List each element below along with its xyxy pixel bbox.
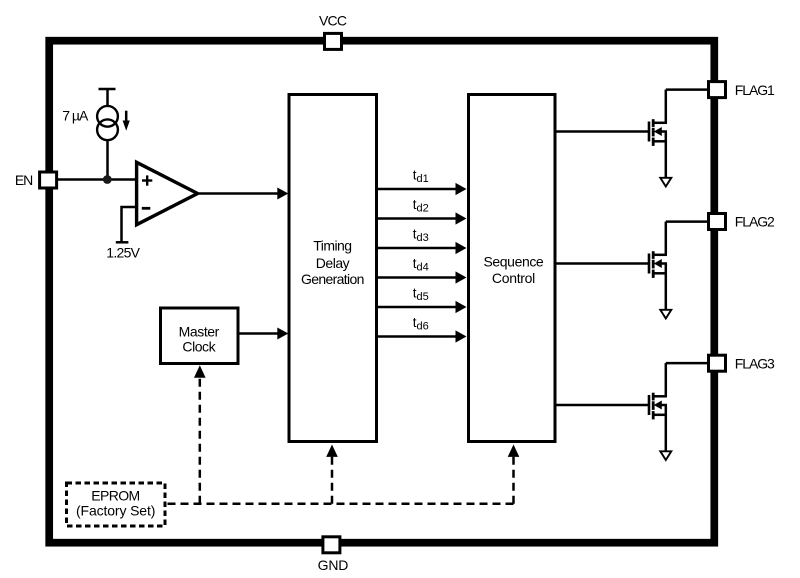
block: Sequence Control <box>469 95 556 442</box>
ground (Q3 source) <box>660 451 671 460</box>
svg-text:Generation: Generation <box>301 271 365 287</box>
wire EN pin to comparator + input <box>57 178 137 181</box>
wire comparator output to Timing Delay Generation <box>199 192 278 195</box>
comparator U1 <box>137 162 198 224</box>
EPROM (Factory Set) block <box>67 483 166 526</box>
dashed wire EPROM to Master Clock <box>199 376 202 504</box>
wire Sequence Control to Q1 gate <box>556 130 649 133</box>
svg-text:FLAG2: FLAG2 <box>735 214 775 230</box>
svg-text:(Factory Set): (Factory Set) <box>76 503 155 519</box>
svg-text:EPROM: EPROM <box>91 487 140 503</box>
svg-text:Sequence: Sequence <box>484 253 544 269</box>
svg-text:FLAG1: FLAG1 <box>735 82 775 98</box>
svg-text:Control: Control <box>492 270 535 286</box>
node A (EN / current source junction) <box>103 175 112 184</box>
1.25V reference connection <box>116 207 137 242</box>
wire Sequence Control to Q2 gate <box>556 262 649 265</box>
wire td2 <box>377 217 457 220</box>
dashed wire EPROM to Sequence Control <box>512 455 515 504</box>
svg-text:EN: EN <box>15 172 33 188</box>
IC boundary <box>49 41 714 543</box>
FLAG2 pin <box>709 214 726 230</box>
FLAG3 pin <box>709 355 726 371</box>
GND pin <box>323 537 340 553</box>
block: Timing Delay Generation <box>289 95 377 442</box>
dashed wire EPROM bus horizontal <box>168 502 514 505</box>
current source I1 (7 uA) <box>97 89 130 140</box>
dashed wire EPROM to Timing Delay Generation <box>331 455 334 504</box>
transistor Q2 <box>649 222 709 310</box>
transistor Q3 <box>649 363 709 451</box>
svg-text:VCC: VCC <box>319 12 347 28</box>
wire current source to node A <box>106 140 109 180</box>
transistor Q1 <box>649 90 709 178</box>
svg-text:Delay: Delay <box>316 255 350 271</box>
svg-text:Timing: Timing <box>313 238 352 254</box>
ground (Q1 source) <box>660 178 671 187</box>
svg-text:7 µA: 7 µA <box>62 107 89 123</box>
svg-text:Clock: Clock <box>182 339 216 355</box>
FLAG1 pin <box>709 82 726 98</box>
svg-text:Master: Master <box>179 324 220 340</box>
wire td5 <box>377 306 457 309</box>
wire Master Clock to Timing Delay Generation <box>240 332 279 335</box>
wire td6 <box>377 335 457 338</box>
wire Sequence Control to Q3 gate <box>556 404 649 407</box>
wire td1 <box>377 188 457 191</box>
svg-text:GND: GND <box>318 557 349 573</box>
VCC pin <box>325 33 342 49</box>
svg-text:1.25V: 1.25V <box>106 245 140 261</box>
EN pin <box>40 172 57 188</box>
ground (Q2 source) <box>660 310 671 319</box>
svg-text:FLAG3: FLAG3 <box>735 355 775 371</box>
block: Master Clock <box>161 308 239 364</box>
wire td4 <box>377 276 457 279</box>
wire td3 <box>377 247 457 250</box>
